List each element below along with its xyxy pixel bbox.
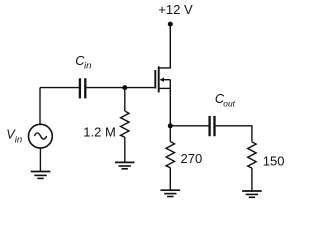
label Cin [75, 53, 91, 72]
wire gate (Vin/Cin to gate) [40, 87, 79, 89]
svg-text:in: in [15, 134, 22, 145]
gate bar [154, 70, 156, 89]
svg-text:270: 270 [181, 151, 203, 166]
supply dot [168, 22, 173, 27]
transistor Q1 n-channel D-MOSFET [155, 66, 170, 125]
node B source/output junction dot [168, 123, 173, 128]
wire 270 to ground [169, 168, 171, 190]
label Cout [215, 91, 236, 109]
source/substrate vertical [169, 80, 171, 126]
wire 1.2M top [124, 88, 126, 111]
node A gate junction dot [122, 85, 127, 90]
capacitor Cout [210, 116, 215, 136]
ground (R1) [115, 162, 135, 168]
resistor R3 zigzag [248, 142, 256, 168]
source Vin (AC source) [29, 124, 53, 148]
wire 1.2M to ground [124, 137, 126, 162]
ground (R3) [242, 191, 262, 197]
ground (R2) [161, 190, 181, 196]
wire drain (supply to MOSFET drain) [159, 24, 171, 68]
svg-text:in: in [84, 61, 91, 72]
channel bar [158, 66, 160, 92]
wire Cout to load [216, 126, 252, 142]
wire Vin to ground [39, 148, 41, 171]
resistor R1 zigzag [121, 111, 129, 137]
svg-text:1.2 M: 1.2 M [83, 125, 116, 140]
wire 270 top [169, 126, 171, 142]
arrowhead [160, 78, 165, 82]
svg-text:out: out [223, 99, 235, 109]
wire Vin vertical [39, 88, 41, 125]
wire 150 to ground [251, 168, 253, 191]
source stub [159, 87, 171, 89]
ground (Vin) [31, 172, 51, 179]
capacitor Cin [80, 78, 85, 98]
svg-text:150: 150 [263, 154, 285, 169]
label Vin [6, 127, 22, 146]
substrate arrow stub [164, 79, 171, 81]
wire output node to Cout [170, 125, 208, 127]
svg-text:+12 V: +12 V [158, 2, 193, 17]
resistor R2 zigzag [166, 142, 174, 168]
